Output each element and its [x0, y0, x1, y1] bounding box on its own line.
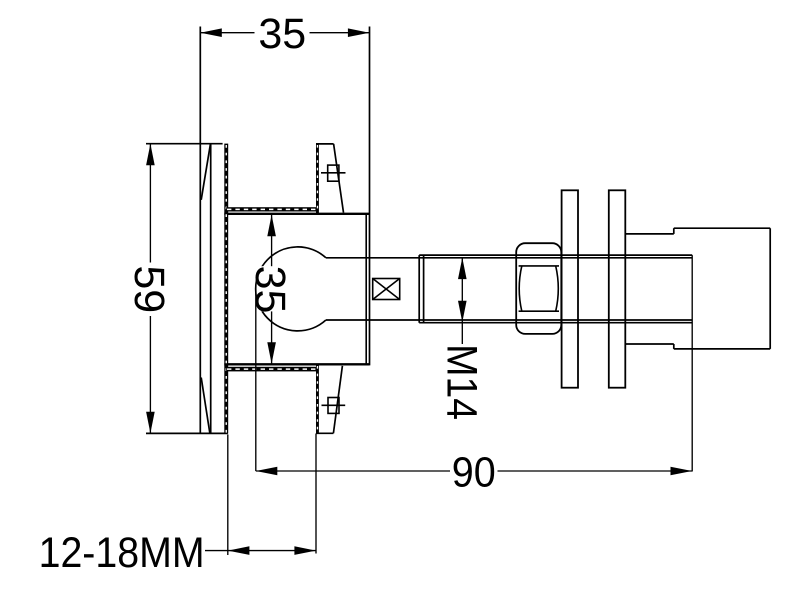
arrow dim35inner down — [267, 342, 276, 364]
arrow dim59 up — [146, 144, 155, 166]
knob top edge — [674, 227, 770, 229]
bottom ear slanted edge — [333, 366, 342, 433]
hex nut bottom chamfer line — [519, 310, 559, 312]
gasket hatch: top bar — [226, 207, 317, 211]
dim 12-18MM: right extension line — [315, 434, 317, 554]
top ear set screw axis line — [321, 172, 346, 174]
rod left chamfer line — [423, 256, 425, 322]
dim 12-18MM: left extension line — [227, 435, 229, 556]
body right edge inner line — [365, 214, 367, 364]
dim M14: dimension line — [461, 258, 463, 344]
svg-text:M14: M14 — [438, 344, 486, 420]
hex nut left facet arc — [519, 266, 522, 311]
dim 59: dimension line segments — [149, 144, 151, 263]
arrow dim90 right — [671, 467, 693, 476]
dim 90: right extension line (rod end) — [691, 255, 693, 471]
flange top edge (also 59 extension line) — [146, 143, 223, 145]
text mask for inner 35 — [257, 266, 289, 311]
flange back face — [210, 144, 212, 434]
knob collar top line — [625, 233, 674, 235]
flange outer face (left vertical line, also ext line of top 35) — [199, 27, 201, 434]
bottom ear set screw body — [328, 398, 339, 414]
arrow dim90 left — [256, 467, 277, 476]
knob step bottom vertical — [673, 344, 675, 349]
body bottom edge — [224, 363, 369, 365]
arrow dimM14 down — [458, 301, 467, 323]
arrow dimM14 up — [458, 258, 467, 280]
gasket hatch: bottom ear left bar — [316, 365, 319, 433]
top ear slanted edge — [334, 144, 344, 213]
arrow dim1218 right — [294, 546, 316, 555]
washer 2 — [609, 190, 626, 387]
top ear top edge — [316, 143, 334, 145]
svg-text:90: 90 — [452, 448, 496, 496]
rod left end face — [418, 255, 420, 323]
arrow dim35inner up — [267, 215, 276, 237]
bottom ear set screw axis line — [322, 404, 346, 406]
hex nut right facet arc — [556, 266, 559, 311]
knob bottom edge — [674, 348, 770, 350]
flange taper edge top — [201, 144, 210, 200]
thread minor dia top line (keyhole slot to rod end) — [326, 257, 692, 259]
dim 35 inner: dimension line — [271, 215, 273, 364]
thread minor dia bottom line — [326, 319, 692, 321]
dim 90: dimension line segments — [256, 470, 450, 472]
hex nut outline — [516, 243, 561, 334]
flange taper edge bottom — [201, 378, 210, 433]
dim 12-18MM: dimension/leader line — [205, 550, 316, 552]
gasket hatch: bottom bar — [226, 367, 317, 372]
washer 1 — [562, 190, 578, 387]
arrow dim35top left — [200, 28, 222, 37]
arrow dim59 down — [146, 412, 155, 434]
gasket hatch: top ear left bar — [316, 144, 319, 213]
svg-text:12-18MM: 12-18MM — [39, 529, 205, 577]
svg-text:35: 35 — [258, 10, 306, 58]
bottom ear bottom edge — [316, 432, 333, 434]
dim 35 top: dimension line segments — [200, 32, 254, 34]
top ear set screw body — [328, 165, 339, 181]
svg-text:59: 59 — [125, 265, 173, 313]
knob step top vertical — [673, 228, 675, 234]
keyhole circle arc — [256, 247, 326, 331]
svg-text:35: 35 — [246, 266, 294, 314]
knob collar bottom line — [625, 343, 674, 345]
knob right edge — [769, 228, 771, 349]
adjuster cross box — [373, 279, 400, 300]
threaded rod outer bottom line — [419, 322, 692, 324]
dim 90: left extension line (from circle) — [255, 293, 257, 471]
threaded rod outer top line — [419, 254, 692, 256]
hex nut top chamfer line — [519, 265, 559, 267]
body right edge outer line (also ext line of top 35) — [369, 27, 371, 366]
body top edge — [224, 213, 369, 215]
gasket hatch: glass-side wall bar — [224, 144, 228, 434]
arrow dim35top right — [348, 28, 370, 37]
arrow dim1218 left — [228, 546, 250, 555]
flange bottom edge (also 59 extension line) — [146, 432, 228, 434]
